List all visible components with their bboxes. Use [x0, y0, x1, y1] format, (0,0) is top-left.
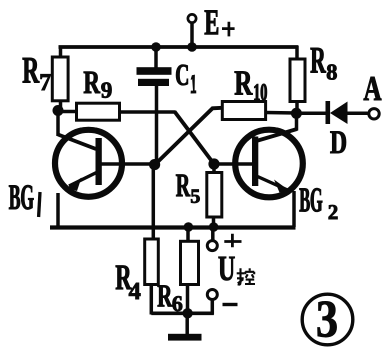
wire ground stem [185, 313, 189, 335]
resistor R4 [145, 239, 159, 285]
wire R6 bottom lead [186, 284, 190, 315]
wire R9 right [119, 110, 176, 114]
label R6 [158, 285, 183, 311]
transistor BG2 [235, 130, 303, 198]
label U of U kong [219, 257, 235, 281]
node bottom common (R4,R6,U-,ground) [182, 308, 192, 318]
wire BG2 collector diagonal [255, 129, 298, 142]
node R6 top on rail [184, 222, 194, 232]
wire BG1 base node down to R4 (crosses rail) [152, 165, 156, 240]
node R5 bottom on rail [209, 222, 219, 232]
label R5 [176, 175, 200, 203]
label E+ [205, 10, 235, 36]
node BG2 base (R9 diagonal, R5) [208, 158, 219, 169]
wire diode to A terminal [347, 112, 368, 116]
capacitor C1 [137, 67, 172, 86]
resistor R8 [290, 59, 305, 102]
label R4 [116, 266, 141, 299]
wire R4 bottom lead [150, 284, 154, 315]
node R7 bottom / R9 left [53, 105, 64, 116]
wire R6 top lead [186, 226, 190, 241]
transistor BG1 [55, 130, 122, 197]
wire R7 top elbow [59, 46, 63, 58]
wire C1 bottom stem [155, 86, 159, 165]
wire R8 top elbow [295, 46, 299, 60]
wire bottom node horizontal [151, 311, 214, 315]
wire R7 bottom lead [59, 101, 63, 111]
wire U- elbow [211, 299, 215, 315]
label U- (minus sign) [223, 303, 238, 306]
label R8 [311, 48, 337, 80]
node E+ rail junction [187, 42, 197, 52]
terminal U- [207, 290, 217, 300]
node diode / R8 / R10 / collector [291, 108, 302, 119]
label U+ (plus sign) [224, 234, 241, 247]
wire left vertical collector segment [56, 108, 60, 136]
wire E+ stem [190, 24, 194, 48]
wire BG1 collector diagonal [58, 135, 96, 150]
resistor R9 [77, 103, 120, 120]
node BG1 base (C1, R10 diagonal, R4) [149, 159, 160, 170]
wire BG1 base [100, 162, 155, 166]
terminal A [369, 109, 379, 119]
label C1 [176, 65, 196, 94]
resistor R5 [207, 173, 222, 218]
wire R5 top lead [212, 163, 216, 173]
wire right vertical emitter segment [292, 191, 296, 227]
label BG1 [9, 185, 40, 217]
wire R10 right [265, 111, 297, 115]
wire R5 bottom lead / U+ stem [212, 217, 216, 228]
node C1 top rail junction [151, 42, 161, 52]
label kong character (hand drawn) [237, 268, 255, 284]
wire left vertical emitter segment [56, 193, 60, 227]
label R10 [235, 71, 267, 100]
wire BG2 base [213, 162, 253, 166]
wire R7dot to R9 [57, 110, 77, 114]
ground [168, 334, 202, 341]
label A [364, 77, 382, 100]
label D [330, 131, 346, 153]
wire bottom rail [50, 225, 296, 229]
wire R8 bottom lead [295, 101, 299, 113]
resistor R6 [181, 241, 199, 284]
diode D [326, 101, 348, 124]
resistor R7 [52, 57, 68, 101]
terminal E+ [188, 14, 196, 22]
resistor R10 [222, 102, 265, 120]
wire right vertical collector segment [295, 111, 299, 131]
wire diagonal BG1 base node to R10 [155, 108, 223, 165]
wire top rail [59, 45, 299, 49]
label BG2 [300, 188, 338, 219]
wire C1 top stem [154, 47, 158, 68]
label R9 [84, 72, 112, 98]
terminal U+ [207, 241, 217, 251]
figure number 3 in circle [302, 294, 353, 345]
label R7 [23, 58, 51, 90]
wire diode anode side [296, 112, 326, 116]
wire diagonal R9 to BG2 base node [175, 112, 215, 165]
